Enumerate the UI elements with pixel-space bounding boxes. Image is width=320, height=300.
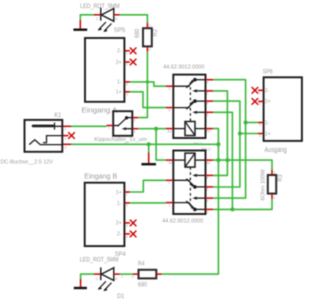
- svg-text:A: A: [115, 17, 118, 21]
- svg-text:1: 1: [274, 196, 276, 200]
- svg-text:1-: 1-: [117, 80, 122, 86]
- svg-text:1-: 1-: [117, 201, 122, 207]
- svg-text:44.62.9012.0000: 44.62.9012.0000: [163, 64, 204, 70]
- svg-text:1: 1: [121, 275, 123, 279]
- svg-text:A1: A1: [168, 129, 172, 133]
- svg-text:680: 680: [135, 28, 141, 38]
- svg-text:A2: A2: [207, 129, 211, 133]
- svg-text:1: 1: [126, 192, 128, 196]
- svg-text:44.62.9012.0000: 44.62.9012.0000: [162, 219, 203, 225]
- svg-text:2+: 2+: [265, 99, 271, 105]
- svg-text:4: 4: [259, 134, 261, 138]
- svg-text:2: 2: [207, 92, 209, 96]
- svg-text:2: 2: [207, 113, 209, 117]
- svg-text:LED_ROT_5MM: LED_ROT_5MM: [80, 257, 119, 264]
- svg-text:1: 1: [169, 203, 171, 207]
- svg-text:SP5: SP5: [114, 27, 126, 34]
- svg-text:4: 4: [169, 108, 171, 112]
- svg-text:2+: 2+: [116, 60, 122, 66]
- svg-text:3: 3: [134, 130, 136, 134]
- svg-text:SP4: SP4: [115, 251, 126, 258]
- svg-text:3: 3: [126, 83, 128, 87]
- svg-text:R4: R4: [138, 261, 145, 268]
- svg-text:A1: A1: [169, 161, 173, 165]
- svg-text:SP6: SP6: [263, 68, 273, 75]
- svg-text:1+: 1+: [265, 131, 271, 137]
- svg-text:4: 4: [207, 199, 209, 203]
- svg-text:1+: 1+: [116, 90, 122, 96]
- svg-text:Ausgang: Ausgang: [264, 147, 286, 154]
- svg-text:K1: K1: [54, 112, 61, 119]
- svg-text:2: 2: [207, 188, 209, 192]
- svg-text:C: C: [96, 277, 99, 281]
- svg-text:A: A: [115, 277, 118, 281]
- svg-text:DC-Buchse__2.5 12V: DC-Buchse__2.5 12V: [1, 160, 54, 166]
- svg-text:2: 2: [149, 48, 151, 52]
- svg-text:1-: 1-: [265, 120, 270, 126]
- svg-text:4: 4: [207, 176, 209, 180]
- svg-text:2: 2: [126, 63, 128, 67]
- svg-text:3: 3: [65, 145, 67, 149]
- svg-text:2: 2: [169, 87, 171, 91]
- svg-text:1: 1: [169, 181, 171, 185]
- svg-text:1: 1: [65, 127, 67, 131]
- svg-text:Eingang B: Eingang B: [84, 173, 117, 180]
- svg-text:4: 4: [126, 93, 128, 97]
- svg-text:1: 1: [259, 91, 261, 95]
- svg-text:Kippschalter_1x_um: Kippschalter_1x_um: [94, 137, 147, 143]
- svg-text:4: 4: [126, 235, 128, 239]
- svg-text:D1: D1: [117, 293, 124, 300]
- svg-text:2: 2: [207, 210, 209, 214]
- svg-text:R3: R3: [278, 174, 284, 182]
- svg-text:4: 4: [207, 102, 209, 106]
- svg-text:2: 2: [134, 119, 136, 123]
- svg-text:1: 1: [108, 126, 110, 130]
- svg-text:680: 680: [138, 282, 148, 289]
- svg-text:2: 2: [126, 204, 128, 208]
- svg-text:A2: A2: [207, 161, 211, 165]
- svg-text:2: 2: [65, 136, 67, 140]
- svg-text:3: 3: [259, 123, 261, 127]
- svg-text:1: 1: [126, 52, 128, 56]
- svg-text:4: 4: [207, 80, 209, 84]
- svg-text:R2: R2: [153, 28, 159, 36]
- svg-text:3: 3: [126, 224, 128, 228]
- svg-text:2: 2: [132, 275, 134, 279]
- svg-text:2-: 2-: [265, 88, 270, 94]
- svg-text:C: C: [96, 17, 99, 21]
- svg-text:1: 1: [149, 24, 151, 28]
- svg-text:6Ohm 100W: 6Ohm 100W: [261, 169, 267, 201]
- svg-text:1+: 1+: [116, 190, 122, 196]
- svg-text:2-: 2-: [117, 49, 122, 55]
- svg-text:2+: 2+: [116, 221, 122, 227]
- svg-text:2-: 2-: [117, 232, 122, 238]
- svg-text:Eingang A: Eingang A: [81, 108, 117, 115]
- svg-text:2: 2: [259, 102, 261, 106]
